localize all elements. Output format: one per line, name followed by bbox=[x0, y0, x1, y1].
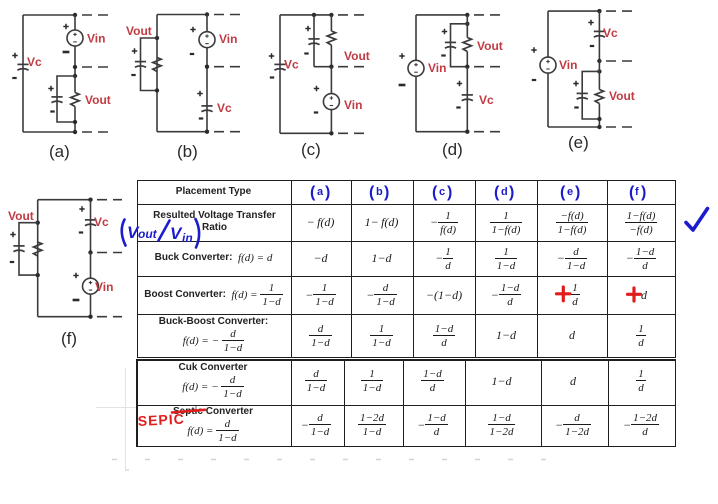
polarity minus of Vin (circuit e) bbox=[532, 79, 536, 81]
row 2 label bbox=[137, 241, 290, 275]
polarity plus of Vin (circuit e) bbox=[531, 47, 536, 52]
row 4: buck-boost bbox=[291, 314, 350, 357]
node: circuit b output bottom node bbox=[155, 88, 159, 92]
svg-text:Vout: Vout bbox=[344, 49, 370, 63]
node: circuit f top right node bbox=[88, 198, 92, 202]
svg-text:Vin: Vin bbox=[344, 98, 362, 112]
svg-text:Vin: Vin bbox=[559, 58, 577, 72]
polarity minus of Vin (circuit a) bbox=[63, 51, 70, 53]
svg-text:Vout: Vout bbox=[126, 24, 152, 38]
svg-text:(d): (d) bbox=[442, 140, 463, 159]
wire: circuit d bottom rail dashed extension bbox=[474, 131, 501, 133]
annotation: blue column letter (e) bbox=[560, 184, 580, 201]
voltage source Vin (circuit f) bbox=[83, 278, 99, 294]
capacitor Vc (circuit f) bbox=[85, 220, 96, 226]
svg-text:Vin: Vin bbox=[428, 61, 446, 75]
svg-text:(c): (c) bbox=[301, 140, 321, 159]
polarity minus of Vc (circuit b) bbox=[199, 118, 203, 120]
resistor load (circuit b) bbox=[153, 58, 161, 72]
polarity plus of Vin (circuit b) bbox=[190, 27, 195, 32]
polarity plus of Vc (circuit a) bbox=[12, 53, 17, 58]
polarity plus of Vc (circuit f) bbox=[79, 206, 84, 211]
polarity plus of Vin (circuit a) bbox=[63, 24, 68, 29]
svg-text:(e): (e) bbox=[568, 133, 589, 152]
svg-text:(a): (a) bbox=[49, 142, 70, 161]
polarity minus of Vin (circuit c) bbox=[314, 112, 318, 114]
wire: circuit f right branch upper bbox=[90, 200, 92, 253]
polarity plus of Vc (circuit b) bbox=[197, 91, 202, 96]
wire: circuit f bottom rail dashed extension bbox=[97, 316, 122, 318]
wire: circuit f output capacitor loop bbox=[19, 223, 38, 275]
wire: circuit f mid rail dashed extension bbox=[97, 252, 122, 254]
polarity plus of Vc (circuit d) bbox=[457, 81, 462, 86]
row 3: boost bbox=[291, 276, 350, 314]
resistor load (circuit d) bbox=[463, 38, 471, 52]
polarity minus of output (circuit d) bbox=[441, 55, 445, 57]
wire: circuit b bottom rail bbox=[157, 131, 207, 133]
wire: circuit f source branch bbox=[90, 253, 92, 317]
row 1: resulted voltage transfer ratio bbox=[291, 204, 350, 241]
polarity minus of output (circuit b) bbox=[131, 74, 135, 76]
node: circuit b bottom node bbox=[205, 130, 209, 134]
polarity plus of Vin (circuit f) bbox=[73, 273, 78, 278]
polarity plus of output (circuit c) bbox=[305, 26, 310, 31]
math cells bbox=[0, 0, 1, 1]
wire: circuit c bottom rail dashed extension bbox=[338, 132, 365, 134]
polarity minus of output (circuit e) bbox=[574, 107, 578, 109]
wire: circuit d bottom rail bbox=[416, 131, 467, 133]
node: circuit a bottom node bbox=[73, 130, 77, 134]
annotation: blue column letter (c) bbox=[432, 184, 452, 201]
annotation: blue column letter (a) bbox=[310, 184, 330, 201]
polarity minus of Vin (circuit f) bbox=[73, 299, 80, 301]
wire: circuit b bottom rail dashed extension bbox=[214, 131, 241, 133]
polarity plus of output (circuit d) bbox=[442, 29, 447, 34]
voltage source Vin (circuit b) bbox=[199, 32, 215, 48]
row 1 label bbox=[139, 203, 290, 240]
wire: circuit a bottom rail bbox=[23, 131, 75, 133]
wire: circuit e bottom rail bbox=[548, 126, 599, 128]
wire: circuit e output capacitor loop bbox=[582, 71, 599, 119]
wire: circuit e mid rail dashed extension bbox=[606, 60, 633, 62]
wire: circuit c output bottom rail bbox=[314, 66, 331, 68]
wire: circuit d top rail dashed extension bbox=[474, 14, 501, 16]
polarity plus of Vc (circuit e) bbox=[588, 20, 593, 25]
wire: circuit a mid rail dashed extension bbox=[82, 66, 108, 68]
capacitor of output filter (circuit c) bbox=[308, 39, 319, 45]
wire: circuit b top rail dashed extension bbox=[214, 14, 241, 16]
svg-text:Vc: Vc bbox=[603, 26, 618, 40]
node: circuit c bottom node bbox=[329, 131, 333, 135]
node: circuit e output bottom node bbox=[597, 117, 601, 121]
voltage source Vin (circuit c) bbox=[323, 94, 339, 110]
polarity plus of output (circuit f) bbox=[10, 232, 15, 237]
svg-text:Vc: Vc bbox=[284, 58, 299, 72]
polarity plus of Vc (circuit c) bbox=[269, 53, 274, 58]
wire: circuit b left main branch bbox=[156, 15, 158, 132]
polarity minus of output (circuit f) bbox=[10, 261, 14, 263]
annotation: red plus correction in boost (f) cell bbox=[628, 288, 641, 301]
node: circuit f bottom node bbox=[88, 315, 92, 319]
svg-text:(f): (f) bbox=[61, 329, 77, 348]
capacitor of output filter (circuit a) bbox=[51, 97, 62, 103]
wire: circuit c top rail bbox=[280, 14, 331, 16]
annotation: blue column letter (b) bbox=[369, 184, 389, 201]
polarity minus of Vc (circuit f) bbox=[79, 232, 83, 234]
node: circuit a output bottom node bbox=[73, 120, 77, 124]
annotation: blue column letter (f) bbox=[629, 184, 646, 201]
node: circuit e bottom node bbox=[597, 125, 601, 129]
capacitor Vc (circuit e) bbox=[594, 31, 605, 37]
node: circuit e top node bbox=[597, 9, 601, 13]
wire: circuit a top rail dashed extension bbox=[82, 14, 109, 16]
wire: circuit c top rail dashed extension bbox=[338, 14, 365, 16]
node: circuit e output top node bbox=[597, 69, 601, 73]
capacitor of output filter (circuit e) bbox=[577, 93, 588, 99]
capacitor Vc (circuit c) bbox=[274, 64, 285, 70]
wire: circuit b source branch bbox=[206, 15, 208, 132]
wire: circuit c mid rail dashed extension bbox=[338, 66, 365, 68]
capacitor Vc (circuit d) bbox=[462, 95, 473, 101]
faint grid horizontal remnant near SEPIC row bbox=[96, 407, 136, 409]
wire: circuit b top rail bbox=[157, 14, 207, 16]
row 6: sepic bbox=[290, 404, 343, 447]
polarity minus of Vc (circuit e) bbox=[590, 45, 594, 47]
capacitor of output filter (circuit d) bbox=[445, 42, 456, 48]
node: circuit c resistor branch top node bbox=[329, 13, 333, 17]
voltage source Vin (circuit a) bbox=[67, 30, 83, 46]
resistor load (circuit e) bbox=[595, 90, 603, 104]
wire: circuit a resistor branch bbox=[74, 76, 76, 132]
wire: circuit e source branch bbox=[547, 11, 549, 127]
row 2: buck bbox=[291, 241, 350, 276]
node: circuit a output top node bbox=[73, 74, 77, 78]
wire: circuit c resistor branch bbox=[330, 15, 332, 67]
wire: circuit e top rail bbox=[548, 10, 599, 12]
svg-text:Vin: Vin bbox=[87, 32, 105, 46]
polarity minus of Vc (circuit c) bbox=[270, 77, 274, 79]
svg-text:Vc: Vc bbox=[94, 215, 109, 229]
wire: circuit d resistor branch bbox=[466, 15, 468, 67]
resistor load (circuit c) bbox=[327, 31, 335, 45]
faint dot remnant lower bbox=[125, 469, 129, 471]
svg-text:Vout: Vout bbox=[609, 89, 635, 103]
polarity minus of Vin (circuit b) bbox=[190, 53, 194, 55]
node: circuit c mid node bbox=[329, 65, 333, 69]
row 3 label bbox=[137, 276, 290, 313]
annotation: red strikethrough on Septic bbox=[172, 410, 205, 413]
polarity plus of output (circuit e) bbox=[573, 81, 578, 86]
svg-text:Vc: Vc bbox=[479, 93, 494, 107]
wire: circuit c bottom rail bbox=[280, 132, 331, 134]
capacitor of output filter (circuit b) bbox=[135, 62, 146, 68]
node: circuit b output top node bbox=[155, 36, 159, 40]
svg-text:Vout: Vout bbox=[477, 39, 503, 53]
wire: circuit a bottom rail dashed extension bbox=[82, 131, 109, 133]
resistor load (circuit f) bbox=[34, 242, 42, 256]
svg-text:Vc: Vc bbox=[27, 55, 42, 69]
wire: circuit f bottom rail bbox=[38, 316, 91, 318]
wire: circuit d mid rail dashed extension bbox=[474, 66, 501, 68]
node: circuit b top right node bbox=[205, 12, 209, 16]
node: circuit e mid node bbox=[597, 59, 601, 63]
polarity minus of Vc (circuit a) bbox=[12, 77, 16, 79]
wire: circuit d source branch bbox=[415, 15, 417, 132]
capacitor of output filter (circuit f) bbox=[13, 246, 24, 252]
row 5 label bbox=[137, 359, 289, 403]
wire: circuit d lower branch bbox=[466, 67, 468, 132]
wire: circuit f left main branch bbox=[37, 200, 39, 317]
capacitor Vc (circuit a) bbox=[17, 64, 28, 70]
voltage source Vin (circuit e) bbox=[540, 57, 556, 73]
polarity plus of output (circuit b) bbox=[132, 48, 137, 53]
wire: circuit c source branch bbox=[330, 67, 332, 134]
wire: circuit e resistor branch bbox=[598, 61, 600, 127]
annotation: red plus correction in boost (e) cell bbox=[557, 287, 571, 301]
node: circuit f output top node bbox=[36, 221, 40, 225]
row 6 label bbox=[137, 403, 289, 446]
node: circuit a mid node bbox=[73, 65, 77, 69]
header bbox=[137, 180, 290, 203]
wire: circuit c left branch bbox=[279, 15, 281, 133]
node: circuit d top node bbox=[465, 13, 469, 17]
node: circuit b mid node bbox=[205, 65, 209, 69]
node: circuit d output top node bbox=[465, 22, 469, 26]
wire: circuit a top rail bbox=[23, 14, 75, 16]
svg-text:Vin: Vin bbox=[95, 280, 113, 294]
faint grid vertical remnant bbox=[124, 368, 126, 470]
svg-text:Vout: Vout bbox=[85, 93, 111, 107]
polarity minus of Vin (circuit d) bbox=[399, 84, 406, 86]
polarity minus of output (circuit c) bbox=[304, 53, 308, 55]
wire: circuit d output capacitor loop bbox=[451, 24, 468, 67]
resistor load (circuit a) bbox=[71, 93, 79, 107]
polarity plus of Vin (circuit d) bbox=[399, 53, 404, 58]
wire: circuit d top rail bbox=[416, 14, 467, 16]
row 5: cuk bbox=[290, 359, 343, 404]
capacitor Vc (circuit b) bbox=[201, 106, 212, 112]
wire: circuit a left branch bbox=[22, 15, 24, 132]
faint dashed remnant under table bbox=[112, 459, 566, 461]
wire: circuit b output capacitor loop bbox=[141, 38, 158, 91]
node: circuit f output bottom node bbox=[36, 273, 40, 277]
node: circuit d mid node bbox=[465, 65, 469, 69]
wire: circuit b mid rail dashed extension bbox=[214, 66, 241, 68]
node: circuit f mid node bbox=[88, 250, 92, 254]
svg-text:Vc: Vc bbox=[217, 101, 232, 115]
wire: circuit f top rail dashed extension bbox=[97, 199, 122, 201]
svg-text:(b): (b) bbox=[177, 142, 198, 161]
wire: circuit e bottom rail dashed extension bbox=[606, 126, 633, 128]
polarity minus of Vc (circuit d) bbox=[456, 107, 460, 109]
svg-text:Vin: Vin bbox=[219, 32, 237, 46]
annotation: blue column letter (d) bbox=[494, 184, 514, 201]
wire: circuit e right branch upper bbox=[598, 11, 600, 61]
wire: circuit a source branch bbox=[74, 15, 76, 76]
annotation: blue handwritten (Vout/Vin) bbox=[122, 219, 199, 248]
polarity plus of Vin (circuit c) bbox=[314, 86, 319, 91]
annotation: blue checkmark bbox=[686, 209, 708, 231]
polarity plus of output (circuit a) bbox=[48, 86, 53, 91]
polarity minus of output (circuit a) bbox=[50, 111, 54, 113]
svg-text:Vout: Vout bbox=[8, 209, 34, 223]
wire: circuit c output capacitor branch bbox=[313, 15, 315, 67]
node: circuit d bottom node bbox=[465, 130, 469, 134]
wire: circuit e top rail dashed extension bbox=[606, 10, 633, 12]
wire: circuit f top rail bbox=[38, 199, 91, 201]
node: circuit c cap branch top node bbox=[312, 13, 316, 17]
row 4 label bbox=[137, 313, 290, 357]
wire: circuit a output capacitor loop bbox=[57, 76, 75, 122]
voltage source Vin (circuit d) bbox=[408, 60, 424, 76]
node: circuit a top node bbox=[73, 13, 77, 17]
